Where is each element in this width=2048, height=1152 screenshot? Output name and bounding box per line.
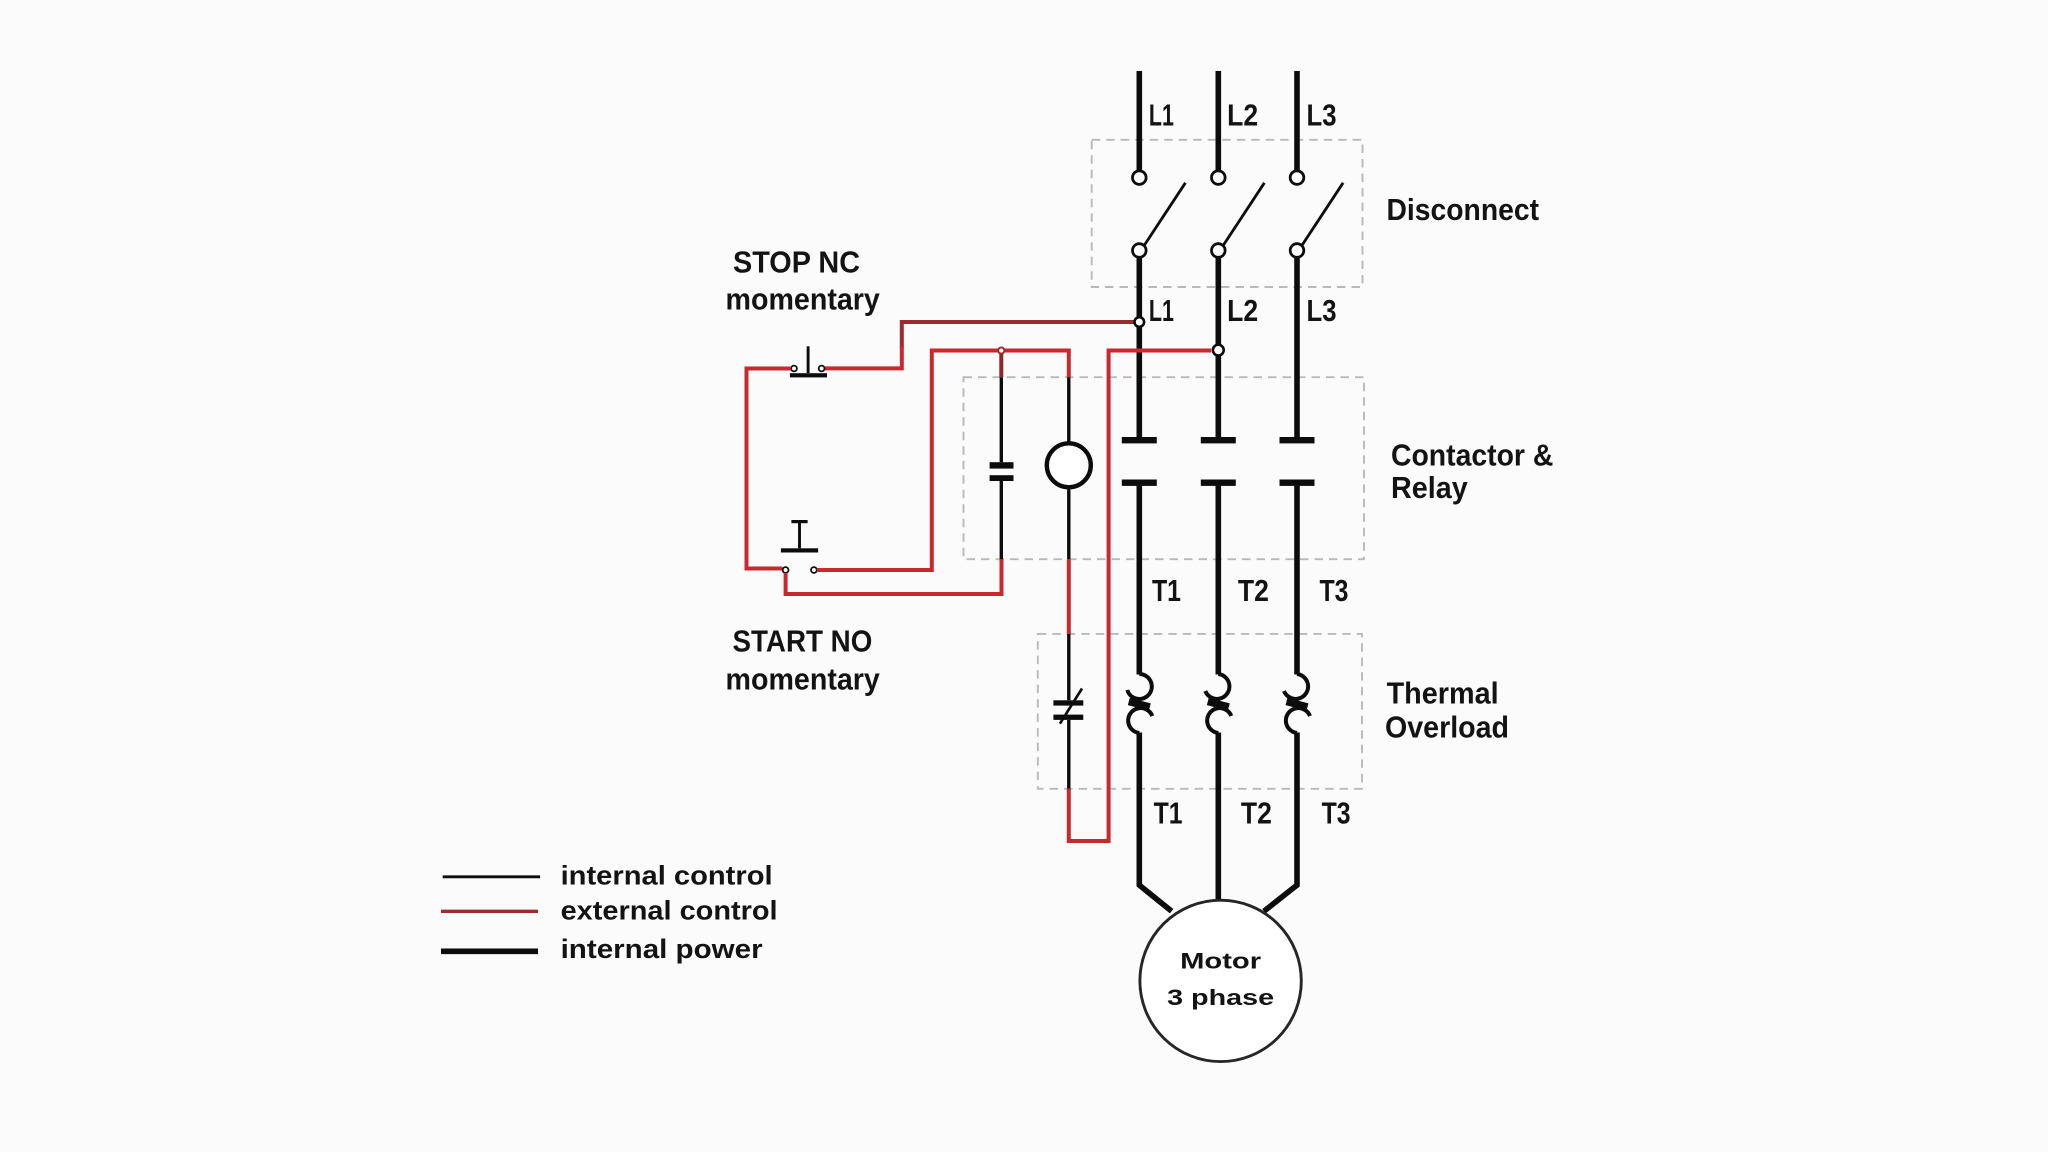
- aux contact M (NO): [990, 462, 1014, 481]
- contactor dashed box: [964, 377, 1365, 559]
- svg-text:L1: L1: [1149, 293, 1174, 328]
- thermal overload dashed box: [1038, 634, 1362, 789]
- overload NC contact OL: [1053, 689, 1083, 724]
- wire T1 to motor: [1139, 733, 1171, 912]
- svg-text:L3: L3: [1307, 98, 1337, 133]
- overload contact lead upper (black): [1067, 634, 1070, 700]
- svg-text:STOP NC: STOP NC: [733, 245, 860, 280]
- svg-text:Disconnect: Disconnect: [1387, 192, 1540, 227]
- aux contact lead upper (black): [1000, 377, 1003, 462]
- disconnect dashed box: [1092, 140, 1363, 287]
- wire overload return to L2 (red): [1069, 351, 1211, 842]
- pushbutton START NO: [781, 520, 818, 573]
- node L2 junction: [1213, 345, 1224, 356]
- svg-text:momentary: momentary: [726, 661, 881, 696]
- svg-text:L1: L1: [1149, 98, 1174, 133]
- wire L3 incoming: [1294, 71, 1300, 171]
- overload contact lead lower (black): [1067, 720, 1070, 789]
- svg-text:T2: T2: [1238, 573, 1269, 608]
- coil lead lower (black): [1067, 487, 1070, 559]
- svg-text:START NO: START NO: [733, 623, 873, 658]
- wire T3 to motor: [1264, 733, 1297, 912]
- svg-text:momentary: momentary: [726, 282, 881, 317]
- disconnect switch pole 2: [1212, 171, 1265, 257]
- svg-text:L2: L2: [1227, 98, 1258, 133]
- coil M: [1047, 443, 1091, 487]
- svg-text:Relay: Relay: [1391, 470, 1468, 505]
- wire L1 incoming: [1137, 71, 1143, 171]
- wire L1 to contactor: [1137, 258, 1143, 438]
- aux contact lead lower (black): [1000, 481, 1003, 559]
- wire T2 to motor: [1216, 733, 1222, 902]
- svg-text:L2: L2: [1227, 293, 1258, 328]
- overload heater OL3: [1284, 674, 1310, 733]
- coil lead upper (black): [1067, 377, 1070, 443]
- wire L2 incoming: [1216, 71, 1222, 171]
- disconnect switch pole 1: [1133, 171, 1186, 257]
- disconnect switch pole 3: [1290, 171, 1343, 257]
- legend external control line: [441, 910, 538, 913]
- overload heater OL2: [1205, 674, 1231, 733]
- svg-text:external control: external control: [561, 896, 778, 926]
- wire aux branch lower (red): [786, 559, 1002, 594]
- node L1 junction: [1135, 317, 1145, 327]
- contactor main contact M3: [1280, 437, 1315, 486]
- wire external control from L1 (maroon): [902, 322, 1134, 348]
- svg-text:L3: L3: [1307, 293, 1337, 328]
- contactor main contact M1: [1122, 437, 1157, 486]
- svg-text:Contactor &: Contactor &: [1391, 438, 1553, 473]
- svg-text:Motor: Motor: [1180, 949, 1262, 974]
- wire coil to overload (red): [1067, 559, 1071, 634]
- node aux junction: [998, 347, 1004, 353]
- wire T1 contactor to overload: [1137, 486, 1143, 675]
- svg-text:3 phase: 3 phase: [1167, 985, 1274, 1010]
- wire L2 to contactor: [1216, 258, 1222, 438]
- pushbutton STOP NC: [790, 346, 827, 377]
- svg-text:T3: T3: [1322, 796, 1351, 831]
- svg-text:internal control: internal control: [561, 861, 773, 891]
- svg-text:internal power: internal power: [561, 934, 764, 964]
- svg-text:Thermal: Thermal: [1387, 675, 1499, 710]
- wire aux branch upper (maroon red): [999, 351, 1003, 378]
- wire start-right to L2 feed (red): [817, 351, 1069, 571]
- wire L3 to contactor: [1294, 258, 1300, 438]
- svg-text:T2: T2: [1241, 796, 1272, 831]
- wire stop-left to start-left (red): [747, 369, 792, 569]
- motor M 3-phase: [1140, 900, 1301, 1061]
- svg-text:T1: T1: [1154, 796, 1183, 831]
- svg-text:Overload: Overload: [1385, 709, 1509, 744]
- svg-text:T1: T1: [1152, 573, 1181, 608]
- overload heater OL1: [1127, 674, 1152, 733]
- legend internal control line: [443, 875, 540, 878]
- contactor main contact M2: [1201, 437, 1236, 486]
- svg-text:T3: T3: [1320, 573, 1349, 608]
- wire T2 contactor to overload: [1216, 486, 1222, 675]
- legend internal power line: [441, 948, 538, 954]
- wire T3 contactor to overload: [1294, 486, 1300, 675]
